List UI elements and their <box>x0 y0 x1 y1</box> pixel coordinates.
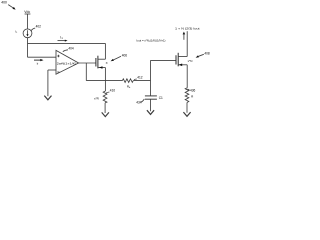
figure label 400 <box>1 1 7 5</box>
wire source bottom to node <box>27 38 29 58</box>
label x*R <box>94 96 100 100</box>
svg-text:X: X <box>106 61 108 65</box>
M2 label x*N <box>188 59 193 63</box>
source current label I1 <box>15 29 18 34</box>
wire output branch down <box>85 63 87 81</box>
transistor M2 (408) gate bar <box>175 55 177 64</box>
resistor R (436) <box>185 88 189 103</box>
current arrow I1 on top rail <box>58 40 68 42</box>
M2 source wire down <box>186 65 188 88</box>
label 408 <box>204 52 210 56</box>
leader 434 <box>141 99 144 102</box>
M2 source arrow <box>179 64 183 67</box>
output top label text <box>175 27 200 31</box>
svg-text:434: 434 <box>136 101 142 105</box>
label C1 <box>159 96 163 100</box>
svg-text:436: 436 <box>190 88 196 92</box>
rail to resistor Rb <box>86 80 122 82</box>
wire op-amp minus input <box>48 69 56 71</box>
wire node to op-amp + input <box>28 56 57 58</box>
op-amp U1 (404) <box>56 50 79 74</box>
svg-text:C1: C1 <box>159 96 163 100</box>
output arrow head <box>183 33 185 39</box>
label 406 <box>122 53 128 57</box>
svg-text:402: 402 <box>36 25 42 29</box>
svg-text:x*R: x*R <box>94 96 100 100</box>
current label I1 <box>60 36 63 40</box>
leader 412 <box>134 78 137 81</box>
svg-text:406: 406 <box>122 53 128 57</box>
resistor Rb (412) <box>122 79 133 83</box>
transistor M1 channel bar <box>97 56 99 69</box>
label 404 <box>68 46 74 50</box>
ground arrow (C1) <box>147 110 154 114</box>
svg-text:Vdc: Vdc <box>24 10 30 14</box>
M2 drain stub <box>178 56 187 58</box>
leader 410 <box>106 92 110 93</box>
M1 label X <box>106 61 108 65</box>
node wire vertical (gate node) <box>150 60 152 96</box>
current annotation Ib under + wire <box>34 59 44 61</box>
transistor M1 (406) gate bar <box>95 58 97 67</box>
M1 drain stub <box>98 58 106 60</box>
figure pointer arrow <box>8 5 15 10</box>
minus sign <box>57 71 59 73</box>
leader 406 <box>111 56 121 61</box>
leader 402 <box>31 28 35 31</box>
leader 408 <box>196 54 204 57</box>
capacitor C1 (434) top plate <box>145 95 157 97</box>
ground arrow (x*R) <box>102 112 109 116</box>
op-amp gain text <box>57 62 77 66</box>
svg-text:408: 408 <box>204 52 210 56</box>
output equation text <box>137 38 166 42</box>
ground arrow (R) <box>183 112 190 116</box>
current source I1 (402) circle <box>23 29 32 38</box>
transistor M2 channel bar <box>177 53 179 67</box>
plus sign <box>57 55 59 57</box>
Vdc label <box>24 10 30 14</box>
svg-text:2wN(1+1/K): 2wN(1+1/K) <box>57 62 77 66</box>
leader 436 <box>187 89 189 90</box>
svg-text:1 + N (2/3) Iout: 1 + N (2/3) Iout <box>175 27 200 31</box>
M2 source stub <box>178 64 187 66</box>
leader 404 <box>63 50 68 52</box>
label 434 <box>136 101 142 105</box>
svg-text:Iout = x*N₂(1/K)(1/N+1): Iout = x*N₂(1/K)(1/N+1) <box>137 38 166 42</box>
M1 source arrow <box>99 66 103 69</box>
svg-text:404: 404 <box>68 46 74 50</box>
M1 source wire down <box>104 68 106 92</box>
arrow inside current source <box>27 30 29 34</box>
wire R to ground <box>186 103 188 113</box>
wire op-amp output to M1 gate <box>79 62 96 64</box>
rail Rb to node <box>133 80 150 82</box>
wire Vdc to source top <box>27 14 29 29</box>
label 436 <box>190 88 196 92</box>
svg-text:x*N: x*N <box>188 59 193 63</box>
wire C1 to ground <box>150 99 152 111</box>
wire x*R to ground <box>104 103 106 113</box>
ground arrow (minus input) <box>44 96 51 100</box>
label 402 <box>36 25 42 29</box>
label R <box>191 94 194 98</box>
capacitor C1 bottom plate <box>145 98 157 100</box>
label Rb <box>127 84 131 89</box>
label 412 <box>137 76 143 80</box>
top rail wire <box>28 42 106 44</box>
resistor x*R (410) <box>103 91 107 103</box>
svg-text:410: 410 <box>110 89 116 93</box>
M2 drain wire up (output) <box>186 31 188 56</box>
label 410 <box>110 89 116 93</box>
wire rail down to M1 drain <box>104 43 106 59</box>
M2 gate wire <box>151 59 177 61</box>
terminal bar under Vdc <box>25 13 31 15</box>
M1 source stub <box>98 67 106 69</box>
wire minus input down to ground <box>47 70 49 96</box>
svg-text:412: 412 <box>137 76 143 80</box>
svg-text:400: 400 <box>1 1 7 5</box>
